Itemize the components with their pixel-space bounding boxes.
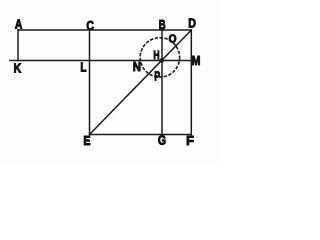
svg-text:H: H <box>153 48 159 62</box>
svg-text:O: O <box>169 34 177 46</box>
svg-text:P: P <box>154 69 160 84</box>
svg-text:B: B <box>159 17 166 32</box>
svg-text:M: M <box>192 53 201 68</box>
wire left vertical A-K <box>17 30 19 61</box>
svg-text:D: D <box>188 16 196 31</box>
wire right vertical D-M-F <box>190 30 192 135</box>
svg-text:A: A <box>15 16 23 31</box>
wire vertical C-L-E <box>89 30 91 135</box>
wire vertical B-H-P-G <box>161 30 163 135</box>
wire diagonal E-D <box>90 30 192 135</box>
wire horizontal K-L-N-H-M <box>10 60 192 62</box>
svg-text:N: N <box>133 59 141 74</box>
svg-text:L: L <box>80 60 86 75</box>
svg-text:E: E <box>83 133 90 148</box>
dashed circle centered at H <box>140 38 179 77</box>
svg-text:F: F <box>186 133 194 148</box>
wire bottom edge E-G-F <box>90 134 192 136</box>
svg-text:G: G <box>158 132 166 147</box>
node H junction dot <box>160 58 165 63</box>
svg-text:K: K <box>14 60 22 75</box>
svg-text:C: C <box>86 18 94 33</box>
wire top edge A-C-B-D <box>18 29 191 31</box>
